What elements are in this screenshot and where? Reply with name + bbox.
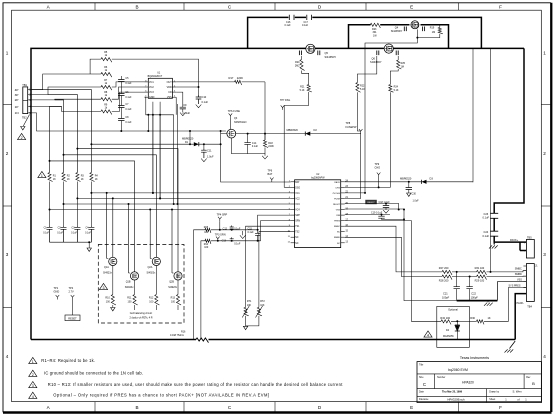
- svg-text:SI4435DY: SI4435DY: [391, 29, 403, 33]
- svg-text:VC1: VC1: [295, 193, 300, 195]
- svg-text:2: 2: [32, 373, 34, 377]
- wire upper snubber loop (thick): [248, 17, 482, 48]
- wire SRP tap from sense resistor: [194, 230, 258, 340]
- svg-text:C18 1.0uF: C18 1.0uF: [379, 201, 391, 204]
- svg-text:0.1uF: 0.1uF: [125, 96, 132, 99]
- title block sheet: [505, 397, 527, 401]
- wire 3P tap down to R3 column: [48, 95, 77, 173]
- thermistor RT2 10K: [256, 300, 266, 317]
- resistor R4 1K: [90, 173, 99, 182]
- capacitor C21 100pF: [442, 272, 460, 301]
- wire TS1 to RT1: [246, 226, 291, 307]
- svg-text:Number: Number: [437, 376, 445, 379]
- resistor R3 1K: [76, 173, 85, 182]
- svg-text:Filename: Filename: [419, 399, 429, 401]
- svg-text:NC: NC: [337, 243, 341, 245]
- wire Q3 gate: [229, 118, 231, 129]
- note 2 triangle: [29, 370, 37, 377]
- capacitor C9 0.22uF: [180, 103, 191, 115]
- svg-text:TP6: TP6: [268, 169, 273, 173]
- svg-text:C30: C30: [412, 193, 417, 196]
- transistor Q1A SI4923x: [103, 257, 117, 274]
- resistor R32 100: [440, 316, 451, 324]
- svg-text:REG27: REG27: [333, 204, 341, 206]
- svg-text:HPA320B.sch: HPA320B.sch: [447, 397, 465, 401]
- svg-text:BAT: BAT: [295, 181, 300, 184]
- resistor R6 1k: [101, 66, 112, 77]
- wire REG27 net: [345, 204, 399, 210]
- svg-text:R32 100: R32 100: [440, 316, 450, 320]
- wire VC3 net row: [63, 203, 291, 205]
- svg-text:R15: R15: [204, 226, 209, 229]
- svg-text:100: 100: [149, 301, 154, 304]
- svg-text:GND: GND: [54, 290, 60, 294]
- test point TP9 CHG: [375, 162, 381, 188]
- note triangle 2 at connector: [18, 133, 26, 140]
- wire VC1 net row: [90, 192, 290, 194]
- ground cell cap bus: [87, 241, 91, 251]
- wire U1 VSS to bus: [189, 130, 191, 145]
- ground C9: [180, 113, 186, 116]
- capacitor C11 1.0uF: [201, 143, 214, 158]
- wire 1P tap down to R1 column: [50, 106, 62, 172]
- resistor R27 200: [439, 266, 452, 275]
- wire PACK+ rail top (thick): [31, 48, 524, 339]
- transistor Q4 SI4435DY: [391, 21, 425, 33]
- diode D3 MBR0520: [400, 176, 473, 184]
- svg-text:0.1uF: 0.1uF: [125, 108, 132, 111]
- wire Q3 drain to D1 node: [220, 130, 227, 145]
- capacitor C23 plates: [490, 213, 498, 218]
- wire U1 ground stubs down: [152, 114, 175, 205]
- wire VC4 net row: [49, 209, 291, 211]
- wire Q5 gate network: [302, 56, 309, 85]
- svg-text:10K: 10K: [247, 304, 252, 307]
- note 3 text: [48, 382, 343, 387]
- svg-text:TB2: TB2: [22, 115, 27, 119]
- ground C12/C13 mid: [240, 231, 246, 239]
- svg-text:RT1: RT1: [247, 300, 252, 303]
- resistor R20 2M: [295, 60, 305, 71]
- wire cell2 stair tap to Q2A: [63, 154, 157, 257]
- wire TS2 to RT2: [259, 232, 291, 308]
- svg-text:2: 2: [21, 136, 23, 140]
- svg-text:R11: R11: [127, 297, 132, 300]
- resistor R2 1K: [62, 173, 71, 182]
- resistor R18 220K: [263, 133, 274, 154]
- capacitor C2 0.1uF: [57, 227, 66, 243]
- wire 4P tap down to R4 column: [31, 90, 91, 173]
- resistor R19 1M: [417, 25, 443, 38]
- svg-text:R29 100: R29 100: [475, 278, 485, 282]
- svg-text:1M: 1M: [401, 66, 404, 69]
- svg-text:2.7V: 2.7V: [69, 290, 75, 294]
- svg-text:B: B: [532, 381, 535, 386]
- title block frame: [417, 362, 542, 403]
- svg-text:MBR0520: MBR0520: [287, 128, 299, 132]
- resistor R15 100: [204, 226, 211, 234]
- svg-text:Title: Title: [419, 364, 424, 367]
- svg-text:R27 200: R27 200: [439, 266, 449, 270]
- svg-text:C11: C11: [207, 149, 212, 153]
- resistor R29 100: [452, 275, 526, 282]
- svg-text:1P: 1P: [15, 105, 19, 109]
- resistor R7 1k: [101, 79, 112, 90]
- svg-text:Optional – Only required if PR: Optional – Only required if PRES has a c…: [53, 393, 269, 398]
- svg-text:SMBD: SMBD: [515, 273, 522, 276]
- wire SRP riser to U2 pin7: [258, 215, 291, 230]
- wire U1 ground stubs down: [152, 102, 179, 205]
- svg-text:10K: 10K: [260, 304, 265, 307]
- svg-text:NC: NC: [337, 232, 341, 234]
- svg-text:4: 4: [543, 354, 546, 359]
- svg-text:FUSEPW: FUSEPW: [346, 125, 357, 129]
- svg-text:SI4923x: SI4923x: [168, 286, 178, 289]
- svg-text:VC4: VC4: [295, 210, 300, 212]
- svg-text:VSS: VSS: [336, 210, 341, 212]
- svg-text:Q1B: Q1B: [126, 281, 131, 284]
- connector TB4 SMBus: [509, 264, 539, 302]
- test point TP3 SRN: [215, 233, 226, 242]
- svg-text:4: 4: [6, 354, 9, 359]
- svg-text:C9: C9: [183, 103, 187, 107]
- svg-text:0.1uF: 0.1uF: [234, 228, 241, 231]
- svg-text:C10: C10: [202, 95, 207, 99]
- wire 4P to rail: [28, 89, 31, 91]
- wire BAT net to U2 pin1: [221, 144, 291, 182]
- wire 4P tap to R5/R6 rows: [31, 59, 101, 90]
- svg-text:1K: 1K: [53, 178, 56, 181]
- test point TP6 BAT: [268, 169, 274, 183]
- resistor R12 100: [149, 266, 159, 306]
- connector TB1 body: [22, 83, 28, 119]
- svg-text:1: 1: [543, 50, 546, 55]
- svg-text:TS2: TS2: [295, 232, 300, 234]
- svg-text:SI4923x: SI4923x: [103, 272, 113, 275]
- svg-text:FUSE: FUSE: [334, 198, 340, 200]
- ground thermistors: [243, 316, 259, 330]
- wire 3P stair to R7 row: [28, 87, 101, 95]
- note 1 text: [41, 358, 95, 363]
- title block rev: [532, 381, 535, 386]
- svg-text:R17: R17: [229, 76, 234, 80]
- svg-text:5.1K: 5.1K: [394, 89, 399, 92]
- svg-text:D3: D3: [430, 176, 434, 180]
- wire SMB pull-up from rail: [490, 48, 492, 272]
- title block title: [448, 368, 468, 372]
- svg-text:0.1uF: 0.1uF: [234, 242, 241, 245]
- svg-text:5.1K: 5.1K: [300, 89, 305, 92]
- svg-text:0.1uF: 0.1uF: [85, 233, 91, 235]
- svg-text:0.1uF: 0.1uF: [302, 24, 309, 27]
- capacitor C10 0.1uF: [196, 95, 209, 104]
- svg-text:TB5: TB5: [527, 235, 532, 239]
- svg-text:DSG: DSG: [295, 187, 300, 189]
- optional box: [437, 306, 470, 347]
- svg-text:E: E: [410, 405, 413, 410]
- note 3 triangle: [29, 382, 37, 389]
- resistor R16 sense 75mohm in rail: [170, 330, 208, 342]
- title block company: [460, 356, 489, 360]
- svg-text:4P: 4P: [15, 88, 19, 92]
- svg-text:C13: C13: [222, 240, 227, 243]
- transistor Q6 SI4435DY: [370, 44, 398, 64]
- svg-text:VC3: VC3: [149, 91, 154, 94]
- resistor R31 100: [452, 266, 526, 275]
- svg-text:SRP: SRP: [295, 215, 300, 217]
- svg-text:R16: R16: [181, 330, 186, 333]
- wire R32 to D4: [451, 320, 469, 325]
- test point TP8 FUSEPW: [346, 121, 363, 134]
- svg-text:4: 4: [32, 395, 34, 399]
- svg-text:100: 100: [106, 301, 111, 304]
- wire C1-C4 ground bus: [50, 241, 92, 243]
- svg-text:0.018 75ohm: 0.018 75ohm: [170, 334, 184, 337]
- wire PACK+ rail right side (thick): [494, 48, 526, 250]
- U2 pins: [288, 181, 349, 245]
- wire bottom PACK- rail (thick): [31, 339, 515, 341]
- note 2 text: [44, 371, 143, 376]
- capacitor C17: [302, 15, 312, 27]
- svg-text:TP4 SRP: TP4 SRP: [217, 212, 228, 216]
- svg-text:Q6: Q6: [372, 57, 376, 61]
- wire R24 to CHG pin: [345, 92, 391, 187]
- svg-text:VSS: VSS: [167, 96, 172, 99]
- svg-text:Q2A: Q2A: [148, 266, 153, 269]
- svg-text:Thu Mar 25, 1999: Thu Mar 25, 1999: [442, 391, 463, 394]
- svg-text:0.1uF: 0.1uF: [202, 100, 209, 104]
- svg-text:R12: R12: [149, 297, 154, 300]
- wire R21 to TP7 DSG: [284, 92, 309, 187]
- svg-text:100: 100: [204, 246, 209, 249]
- svg-text:SYS PRES: SYS PRES: [509, 284, 521, 287]
- svg-text:C21: C21: [443, 292, 448, 296]
- svg-text:1: 1: [41, 174, 43, 178]
- svg-text:5.1K: 5.1K: [360, 88, 365, 91]
- transistor Q5 SI4435DY: [299, 44, 336, 59]
- ruler row labels 1-4: [6, 50, 547, 359]
- title block captions: [419, 364, 531, 402]
- node RESET: [65, 315, 80, 321]
- wire U1 GND loop: [145, 97, 177, 115]
- wire SRN tap from sense resistor: [201, 241, 261, 340]
- svg-text:Q2B: Q2B: [169, 281, 174, 284]
- svg-text:220K: 220K: [237, 76, 243, 80]
- resistor R14 100: [204, 239, 211, 249]
- svg-text:100: 100: [171, 301, 176, 304]
- svg-text:R10 – R13: If smaller resistor: R10 – R13: If smaller resistors are used…: [48, 382, 343, 387]
- svg-text:C24: C24: [484, 230, 489, 234]
- wire R1-R4 to C1-C4: [50, 182, 92, 227]
- wire C14 R18 common: [231, 154, 265, 156]
- svg-text:RBI: RBI: [336, 215, 340, 217]
- capacitor C4 0.1uF: [85, 227, 94, 243]
- svg-text:3: 3: [32, 384, 34, 388]
- svg-text:C12: C12: [223, 228, 228, 231]
- transistor Q1B SI4923x: [125, 272, 139, 289]
- svg-text:HPA320: HPA320: [462, 380, 474, 384]
- capacitor C23 0.1uF label: [483, 212, 490, 220]
- resistor R1 1K: [48, 173, 57, 182]
- svg-text:Drawn by: Drawn by: [489, 390, 500, 393]
- resistor R13 100: [171, 280, 181, 305]
- svg-text:TP9: TP9: [375, 162, 380, 166]
- resistor R30 1K: [469, 288, 526, 325]
- svg-text:0.1uF: 0.1uF: [43, 233, 49, 235]
- svg-text:R30: R30: [470, 316, 475, 320]
- svg-text:IC ground should be connected: IC ground should be connected to the 1N …: [44, 371, 143, 376]
- svg-text:100pF: 100pF: [442, 295, 450, 299]
- connector TB5 PACK+: [510, 235, 534, 258]
- svg-text:R10: R10: [105, 297, 110, 300]
- svg-text:TPS FUSE: TPS FUSE: [228, 110, 241, 113]
- wire Q6 gate network: [390, 69, 398, 85]
- svg-text:bq2060APW: bq2060APW: [311, 177, 325, 180]
- wire cell taps into balance box: [106, 192, 174, 273]
- note 4 text: [53, 393, 269, 398]
- wire VSS net down: [345, 209, 457, 301]
- wire cap ladder column: [120, 76, 122, 131]
- svg-text:VC2: VC2: [149, 86, 154, 89]
- cell balancing dashed box: [98, 245, 184, 324]
- capacitor C6 0.1uF: [118, 91, 132, 99]
- svg-text:R31 100: R31 100: [475, 266, 485, 270]
- svg-text:Q1A: Q1A: [104, 266, 109, 269]
- svg-text:SMBD: SMBD: [334, 237, 341, 239]
- svg-text:1K: 1K: [488, 316, 491, 320]
- transistor Q2A SI4923x: [147, 257, 161, 274]
- ground R18/C14: [262, 156, 268, 159]
- svg-text:B: B: [135, 405, 138, 410]
- svg-text:RESET: RESET: [68, 316, 77, 320]
- wire 2P tap down to R2 column: [55, 100, 64, 173]
- wire PACK sense from rail: [472, 48, 474, 182]
- op-amp U1 bq29412 body: [148, 72, 173, 99]
- svg-text:SRN: SRN: [295, 221, 300, 223]
- svg-text:CD: CD: [168, 91, 172, 94]
- svg-text:TP2: TP2: [69, 286, 74, 290]
- capacitor C8 0.1uF: [118, 116, 132, 124]
- svg-text:0.1uF: 0.1uF: [71, 233, 77, 235]
- svg-text:VC3: VC3: [295, 204, 300, 206]
- svg-text:TB4: TB4: [527, 304, 532, 308]
- title block date: [442, 391, 463, 394]
- svg-text:2: 2: [524, 251, 525, 253]
- svg-text:Optional: Optional: [448, 307, 458, 311]
- svg-text:4: 4: [427, 334, 429, 338]
- capacitor C12 0.1uF: [223, 225, 241, 230]
- resistor R22 5.1K: [356, 56, 377, 92]
- svg-text:PACK+: PACK+: [510, 238, 519, 242]
- capacitor C22 100pF: [466, 277, 478, 301]
- svg-text:1K: 1K: [81, 178, 84, 181]
- resistor R23 301 1W: [370, 23, 380, 37]
- diode D1 MBR0520: [90, 137, 220, 147]
- svg-text:2M2: 2M2: [295, 65, 300, 68]
- svg-text:2P: 2P: [15, 98, 19, 102]
- ground C10: [196, 105, 202, 108]
- capacitor C16: [285, 15, 295, 27]
- transistor Q3 NDS351AN: [227, 113, 247, 138]
- svg-text:3: 3: [6, 252, 9, 257]
- capacitor C3 0.1uF: [71, 227, 80, 243]
- ground PACK+ caps: [489, 242, 498, 248]
- svg-text:3P: 3P: [15, 93, 19, 97]
- svg-text:3: 3: [543, 252, 546, 257]
- svg-text:VC2: VC2: [295, 198, 300, 200]
- note 1 triangle: [29, 357, 37, 364]
- svg-text:TP8: TP8: [346, 121, 351, 125]
- svg-text:VSS: VSS: [517, 278, 522, 281]
- wire Q4 gate to ZVCHG: [345, 29, 419, 193]
- resistor R5 1k: [101, 51, 112, 62]
- svg-text:1: 1: [524, 242, 525, 244]
- title block size: [423, 382, 426, 387]
- svg-text:Texas Instruments: Texas Instruments: [460, 356, 489, 360]
- svg-text:B: B: [135, 4, 138, 9]
- svg-text:220K: 220K: [268, 145, 274, 148]
- connector TB1 pin labels: [15, 88, 19, 115]
- svg-text:R13: R13: [171, 297, 176, 300]
- transistor Q2B SI4923x: [168, 272, 182, 289]
- wire U1 OUT to R17: [176, 81, 265, 83]
- svg-text:TP3 SRN: TP3 SRN: [215, 233, 226, 237]
- svg-text:1.0uF: 1.0uF: [413, 200, 420, 203]
- wire FUSE net: [345, 133, 361, 198]
- svg-text:Sheet: Sheet: [489, 398, 495, 401]
- svg-text:1.0uF: 1.0uF: [207, 155, 214, 159]
- svg-text:bq2060 EVM: bq2060 EVM: [448, 368, 468, 372]
- wire SMBC net: [345, 226, 442, 272]
- capacitor C30 1.0uF: [406, 181, 420, 203]
- ground 1N cell tab: [21, 115, 30, 130]
- resistor R17 220K: [229, 76, 244, 85]
- svg-text:0.1uF: 0.1uF: [125, 82, 132, 85]
- svg-text:F: F: [499, 4, 502, 9]
- wire cell3 stair tap to Q2B: [76, 148, 178, 272]
- svg-text:S. Wen: S. Wen: [512, 390, 522, 394]
- capacitor C24 0.1uF label: [483, 230, 490, 238]
- thermistor RT1 10K: [242, 300, 252, 317]
- ground VSS bus: [484, 301, 493, 306]
- ground C11: [201, 159, 207, 162]
- capacitor C19 0.1uF: [371, 212, 405, 221]
- wire RBI net: [345, 214, 390, 216]
- note triangle 3 in balance box: [99, 283, 107, 290]
- test point TP2 2.7V: [69, 286, 75, 300]
- capacitor C15 0.1uF: [248, 228, 261, 242]
- wire precharge loop (thick): [349, 25, 449, 49]
- ground C30: [407, 193, 411, 196]
- svg-text:MAZS056: MAZS056: [443, 335, 454, 338]
- resistor R8 1k: [101, 91, 112, 102]
- wire R11-R13 stubs: [135, 305, 179, 310]
- connector TB4 pin stubs: [523, 266, 526, 294]
- node REG27 label box: [365, 200, 377, 204]
- svg-text:0.22uF: 0.22uF: [182, 111, 190, 115]
- capacitor C5 0.1uF: [118, 77, 132, 85]
- svg-text:TP1: TP1: [54, 286, 59, 290]
- test point TP1 GND: [54, 286, 60, 300]
- resistor R25 1M: [397, 56, 406, 69]
- svg-text:RT2: RT2: [260, 300, 265, 303]
- title block filename: [447, 397, 465, 401]
- title block drawn by: [512, 390, 522, 394]
- wire 2P stair to R8 row: [28, 98, 101, 101]
- wire R5 row to VDD node: [112, 59, 199, 95]
- svg-text:1N: 1N: [15, 111, 19, 115]
- svg-text:R28 200: R28 200: [439, 278, 449, 282]
